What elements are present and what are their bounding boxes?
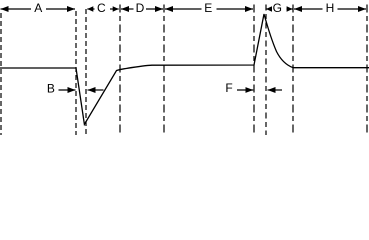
dashed boundary line x=164 (D/E) [163,5,165,136]
dashed boundary line x=254 (E/F) [253,5,255,136]
dimension E arrows [165,8,253,10]
svg-text:C: C [97,1,106,15]
dimension G arrows [266,8,293,10]
waveform trace: baseline, negative dip, recovery, flat, positive spike, decay, baseline [0,14,369,124]
svg-text:E: E [204,1,212,15]
svg-text:H: H [326,1,335,15]
dimension H arrows [294,8,366,10]
dashed boundary line x=1 (left edge) [0,13,2,135]
dimension C arrows [87,8,118,10]
dashed boundary line x=293 (G/H) [292,5,294,136]
svg-text:F: F [225,81,232,95]
dashed boundary line x=86 (B/C) [85,9,87,135]
dimension A arrows [1,8,76,10]
dimension F arrows (below waveform) [237,89,282,91]
dashed boundary line x=120 (C/D) [119,5,121,136]
dimension D arrows [121,8,163,10]
dimension B arrows (below waveform) [59,89,104,91]
svg-text:A: A [34,1,42,15]
dashed boundary line x=266 (F/G) [265,5,267,136]
svg-text:D: D [136,1,145,15]
svg-text:G: G [273,1,282,15]
dashed boundary line x=76 (A/B) [75,11,77,135]
dashed boundary line x=367 (right edge) [366,5,368,136]
svg-text:B: B [47,81,55,95]
